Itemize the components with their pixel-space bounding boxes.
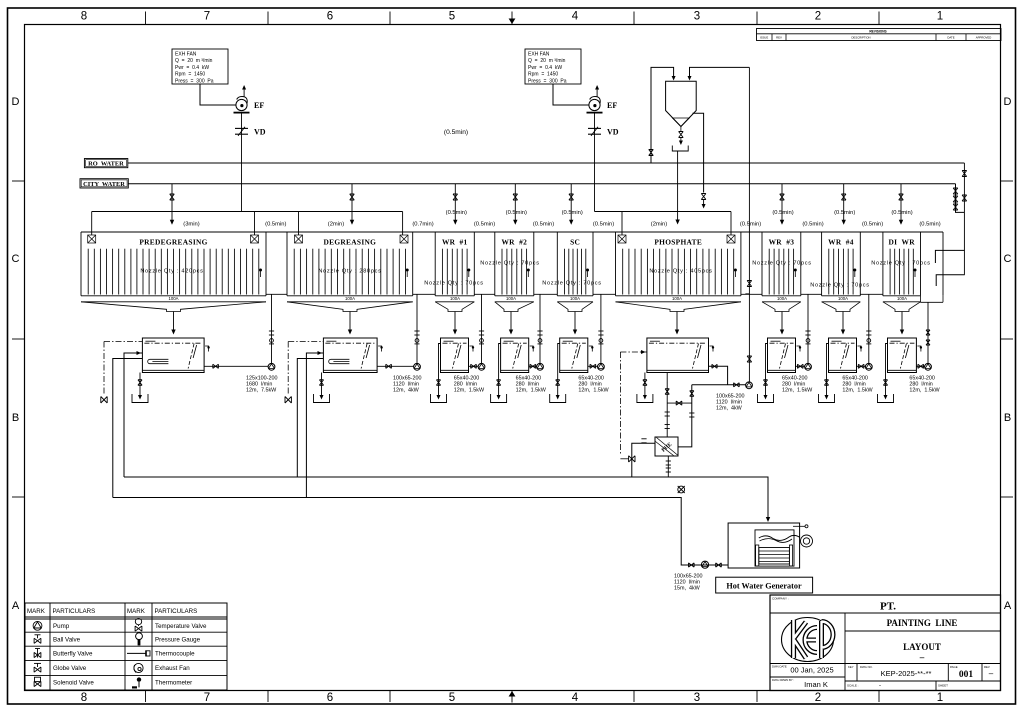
CITY WATER label box — [80, 179, 128, 188]
city water drop wire x=352.0 — [351, 184, 353, 220]
svg-text:REV: REV — [776, 36, 782, 40]
svg-text:(0.5min): (0.5min) — [562, 210, 583, 216]
thermometer symbol in PREDEGREASING — [259, 269, 262, 272]
pump DEGREASING — [414, 363, 421, 370]
tank divider wall x=287 — [286, 232, 288, 296]
svg-text:Q = 20 m ³/min: Q = 20 m ³/min — [528, 58, 566, 64]
hopper WR #4 — [822, 302, 861, 312]
hot water generator label box — [716, 577, 813, 593]
svg-text:Ball Valve: Ball Valve — [53, 636, 81, 643]
PHE left valve — [629, 456, 635, 462]
hot water generator supply valves — [689, 563, 695, 567]
reservoir WR3 dipstick — [780, 344, 786, 369]
svg-text:EXH FAN: EXH FAN — [528, 51, 550, 57]
tank PHOSPHATE bottom wires — [616, 295, 741, 297]
svg-text:EXH FAN: EXH FAN — [175, 51, 197, 57]
hopper DI WR — [883, 302, 921, 312]
city water drop wire x=172.0 — [171, 184, 173, 220]
compartment bottom wire 533.8-557.3 — [534, 293, 558, 295]
svg-text:Iman K: Iman K — [804, 680, 828, 689]
svg-text:12m, 1.5kW: 12m, 1.5kW — [842, 387, 873, 393]
EXH fan 2 discharge arrow — [596, 87, 598, 97]
tank strip top wire — [81, 231, 943, 233]
compartment bottom wire 474.3-494.8 — [474, 293, 495, 295]
reservoir WR4 — [829, 338, 857, 373]
tank divider wall x=943 — [942, 232, 944, 296]
drain funnel WR3 — [758, 394, 774, 403]
reservoir PHOSPHATE dipstick — [693, 344, 699, 369]
tank divider wall x=435.2 — [434, 232, 436, 296]
compartment bottom wire 740.9-762 — [741, 293, 762, 295]
RO water right drop wire — [963, 163, 965, 275]
tank divider wall x=494.8 — [494, 232, 496, 296]
svg-text:SHEET: SHEET — [938, 684, 948, 688]
svg-text:8: 8 — [81, 11, 87, 23]
svg-text:PAINTING LINE: PAINTING LINE — [887, 618, 958, 628]
svg-text:Press = 300 Pa: Press = 300 Pa — [175, 78, 214, 84]
svg-text:DWG NO.: DWG NO. — [860, 665, 873, 669]
city water drop wire x=515.3 — [514, 184, 516, 220]
drain funnel PHOSPHATE — [637, 394, 653, 403]
svg-text:1: 1 — [937, 11, 943, 23]
svg-text:5: 5 — [449, 692, 455, 704]
drain wire SC — [558, 344, 560, 398]
exhaust manifold right — [595, 211, 732, 213]
feed pipe DEGREASING to reservoir — [349, 312, 351, 331]
svg-text:(0.5min): (0.5min) — [802, 222, 823, 228]
svg-text:KEP-2025-**-**: KEP-2025-**-** — [881, 669, 932, 678]
svg-text:A: A — [12, 600, 20, 612]
thermometer symbol in DI WR — [914, 269, 917, 272]
reservoir PREDEGREASING level switch — [205, 346, 209, 352]
tank divider wall x=81 — [80, 232, 82, 296]
feed pipe WR #3 to reservoir — [781, 312, 783, 331]
reservoir WR4 dipstick — [841, 344, 847, 369]
border zone ticks bottom — [145, 691, 147, 703]
tank divider wall x=412.7 — [412, 232, 414, 296]
thermometer symbol in WR #2 — [527, 269, 530, 272]
EXH fan 2 spec box — [525, 49, 581, 84]
svg-text:Nozzle Qty : 70pcs: Nozzle Qty : 70pcs — [810, 283, 870, 289]
title block vertical divider — [844, 613, 846, 691]
EXH fan 1 discharge arrow — [243, 87, 245, 97]
svg-text:WR #2: WR #2 — [501, 237, 527, 246]
svg-text:(0.5min): (0.5min) — [740, 222, 761, 228]
tank WR #4 bottom wires — [822, 295, 861, 297]
exhaust X-box x=91.7 — [88, 235, 96, 243]
reservoir PREDEGREASING level line — [144, 342, 202, 344]
svg-text:3: 3 — [694, 692, 700, 704]
feed pipe PHOSPHATE to reservoir — [676, 312, 678, 331]
pump WR4 — [865, 363, 872, 370]
hot water generator blower — [801, 535, 813, 547]
DI WR fresh water stub lower — [936, 275, 965, 286]
svg-text:(0.5min): (0.5min) — [593, 222, 614, 228]
tank divider wall x=533.8 — [533, 232, 535, 296]
drain wire WR4 — [827, 344, 829, 398]
svg-text:(0.5min): (0.5min) — [444, 129, 468, 136]
svg-text:PHOSPHATE: PHOSPHATE — [654, 237, 702, 246]
pump suction wire DEGREASING — [377, 365, 414, 367]
svg-text:EF: EF — [254, 101, 264, 110]
PHE bottom wire — [667, 456, 669, 477]
cyclone inlet duct right — [690, 67, 750, 77]
reservoir WR4 level switch — [858, 346, 862, 352]
svg-text:Nozzle Qty : 405pcs: Nozzle Qty : 405pcs — [649, 269, 712, 275]
city water drop wire x=571.2 — [570, 184, 572, 220]
hot water supply long wire — [124, 477, 768, 517]
exhaust X-box x=622 — [618, 235, 626, 243]
svg-text:12m, 1.5kW: 12m, 1.5kW — [578, 387, 609, 393]
compartment bottom wire 266-287 — [266, 293, 287, 295]
thermometer symbol in WR #1 — [467, 269, 470, 272]
pump riser wire x=481.5 — [481, 294, 483, 364]
PHE left wire — [632, 443, 655, 477]
svg-text:12m, 7.5kW: 12m, 7.5kW — [246, 387, 277, 393]
exhaust X-box x=254.5 — [251, 235, 259, 243]
svg-text:Nozzle Qty : 420pcs: Nozzle Qty : 420pcs — [140, 269, 203, 275]
svg-text:(0.7min): (0.7min) — [412, 222, 433, 228]
hopper WR #1 — [435, 302, 474, 312]
tank PREDEGREASING bottom wires — [81, 295, 266, 297]
svg-text:5: 5 — [449, 11, 455, 23]
tank divider wall x=557.3 — [556, 232, 558, 296]
svg-text:(3min): (3min) — [183, 222, 199, 228]
svg-text:SC: SC — [570, 237, 580, 246]
svg-text:WR #3: WR #3 — [769, 237, 795, 246]
reservoir PHOSPHATE level line — [649, 342, 707, 344]
svg-text:RO WATER: RO WATER — [88, 161, 124, 168]
svg-text:B: B — [1004, 412, 1011, 424]
tank SC bottom wires — [557, 295, 593, 297]
legend symbol solenoid valve — [34, 681, 41, 686]
legend symbol globe valve — [34, 667, 41, 672]
svg-text:12m, 1.5kW: 12m, 1.5kW — [909, 387, 940, 393]
EXH fan 1 damper VD — [241, 113, 243, 212]
reservoir DIWR dipstick — [900, 344, 906, 369]
svg-text:4: 4 — [572, 11, 579, 23]
DI WR right compartment bottom — [921, 301, 944, 303]
border zone ticks left — [12, 180, 25, 182]
reservoir WR3 — [768, 338, 796, 373]
exhaust X-box x=731 — [727, 235, 735, 243]
svg-text:12m, 1.5kW: 12m, 1.5kW — [782, 387, 813, 393]
title block project row — [845, 630, 1001, 632]
thermometer symbol in PHOSPHATE — [734, 269, 737, 272]
legend symbol thermometer — [137, 677, 141, 681]
svg-text:Butterfly Valve: Butterfly Valve — [53, 650, 93, 657]
svg-text:CITY WATER: CITY WATER — [83, 181, 125, 188]
svg-text:100A: 100A — [506, 296, 516, 301]
reservoir PREDEGREASING heating coil — [148, 359, 169, 363]
reservoir WR4 level line — [831, 342, 855, 344]
phosphate pump suction wire — [692, 384, 746, 386]
svg-text:7: 7 — [204, 692, 210, 704]
city water drop wire x=782.0 — [781, 184, 783, 220]
reservoir WR3 level line — [770, 342, 794, 344]
EXH fan 1 leader wire — [200, 84, 236, 105]
svg-text:15m, 4kW: 15m, 4kW — [674, 586, 701, 592]
legend symbol thermocouple — [127, 652, 146, 654]
drain funnel WR1 — [431, 394, 447, 403]
svg-text:Exhaust Fan: Exhaust Fan — [155, 665, 190, 672]
feed pipe WR #1 to reservoir — [454, 312, 456, 331]
svg-text:PREDEGREASING: PREDEGREASING — [139, 237, 207, 246]
feed pipe SC to reservoir — [574, 312, 576, 331]
legend symbol butterfly valve — [34, 652, 41, 657]
feed pipe WR #2 to reservoir — [510, 312, 512, 331]
reservoir DEGREASING level switch — [378, 346, 382, 352]
svg-text:PARTICULARS: PARTICULARS — [155, 608, 198, 615]
reservoir PREDEGREASING dipstick — [188, 344, 194, 369]
reservoir DEGREASING — [323, 338, 377, 373]
pump riser wire x=868.8 — [868, 294, 870, 364]
svg-text:B: B — [12, 412, 19, 424]
svg-text:001: 001 — [959, 670, 974, 680]
feed pipe PREDEGREASING to reservoir — [173, 312, 175, 331]
svg-text:7: 7 — [204, 11, 210, 23]
reservoir WR2 — [501, 338, 529, 373]
svg-text:APPROVED: APPROVED — [976, 36, 992, 40]
hopper WR #3 — [762, 302, 801, 312]
reservoir DIWR level line — [890, 342, 915, 344]
DI WR fresh water stub upper — [935, 250, 964, 263]
drain wire WR3 — [766, 344, 768, 398]
pump DIWR — [925, 363, 932, 370]
svg-text:COMPANY :: COMPANY : — [772, 597, 789, 601]
PHE top wire to phosphate reservoir — [666, 373, 668, 438]
cyclone drain container — [680, 138, 682, 143]
drain funnel WR4 — [819, 394, 835, 403]
legend table frame — [25, 603, 227, 690]
reservoir WR1 level switch — [470, 346, 474, 352]
svg-text:(0.5min): (0.5min) — [533, 222, 554, 228]
svg-text:(2min): (2min) — [328, 222, 344, 228]
pump WR2 — [537, 363, 544, 370]
compartment bottom wire 860.3-882.9 — [860, 293, 883, 295]
svg-text:Nozzle Qty : 70pcs: Nozzle Qty : 70pcs — [542, 281, 602, 287]
svg-text:D: D — [12, 96, 20, 108]
KEP logo — [782, 618, 834, 662]
svg-text:Q = 20 m ³/min: Q = 20 m ³/min — [175, 58, 213, 64]
reservoir WR2 level line — [503, 342, 527, 344]
svg-text:(0.5min): (0.5min) — [474, 222, 495, 228]
svg-text:(0.5min): (0.5min) — [265, 222, 286, 228]
thermometer symbol in SC — [586, 269, 589, 272]
cyclone body — [666, 81, 697, 126]
svg-text:DATE: DATE — [947, 36, 954, 40]
svg-text:00 Jan, 2025: 00 Jan, 2025 — [790, 666, 833, 675]
svg-text:(0.5min): (0.5min) — [446, 210, 467, 216]
svg-text:Pwr = 0.4 kW: Pwr = 0.4 kW — [528, 65, 562, 71]
svg-text:KEY: KEY — [848, 665, 854, 669]
reservoir SC level line — [562, 342, 586, 344]
tank divider wall x=615.5 — [615, 232, 617, 296]
title block date row — [770, 663, 1001, 665]
svg-text:ISSUE: ISSUE — [760, 36, 769, 40]
return line junction valve — [678, 486, 685, 493]
border centre mark bottom — [511, 691, 513, 703]
svg-text:MARK: MARK — [27, 608, 46, 615]
tank divider wall x=266 — [265, 232, 267, 296]
svg-text:Pump: Pump — [53, 623, 70, 630]
pump riser wire x=808 — [807, 294, 809, 364]
drain wire WR1 — [439, 344, 441, 398]
svg-text:6: 6 — [327, 692, 333, 704]
svg-text:8: 8 — [81, 692, 87, 704]
svg-text:DWG DRWN BY :: DWG DRWN BY : — [772, 678, 794, 682]
reservoir WR2 level switch — [530, 346, 534, 352]
tank divider wall x=474.3 — [473, 232, 475, 296]
svg-text:SCALE :: SCALE : — [847, 684, 859, 688]
city water drop wire x=901.0 — [900, 184, 902, 220]
svg-text:C: C — [1004, 253, 1012, 265]
tank WR #3 bottom wires — [762, 295, 801, 297]
svg-text:EF: EF — [607, 101, 617, 110]
svg-text:100A: 100A — [570, 296, 580, 301]
hopper SC — [557, 302, 593, 312]
tank divider wall x=882.9 — [882, 232, 884, 296]
revision table — [757, 29, 1002, 41]
EXH fan 1 spec box — [172, 49, 228, 84]
svg-text:Rpm = 1450: Rpm = 1450 — [175, 72, 205, 78]
svg-text:LAYOUT: LAYOUT — [903, 642, 941, 652]
cyclone side outlet wire — [693, 113, 704, 192]
svg-text:Pwr = 0.4 kW: Pwr = 0.4 kW — [175, 65, 209, 71]
svg-text:REVISIONS: REVISIONS — [869, 30, 886, 34]
drain funnel DEGREASING — [314, 394, 330, 403]
PHE right wire — [678, 385, 692, 447]
compartment bottom wire 800.8-821.6 — [801, 293, 822, 295]
compartment bottom wire 412.7-435.2 — [413, 293, 436, 295]
svg-text:(0.5min): (0.5min) — [891, 210, 912, 216]
svg-text:100A: 100A — [838, 296, 848, 301]
legend symbol pump — [33, 621, 42, 630]
legend symbol ball valve — [34, 638, 41, 643]
EXH fan 1 fan symbol EF — [236, 99, 247, 110]
cascade wire res2 to res1 upper — [124, 353, 142, 477]
svg-text:4: 4 — [572, 692, 579, 704]
reservoir WR1 level line — [443, 342, 467, 344]
condensate valve x=104 — [101, 397, 107, 404]
pump suction wire WR3 — [796, 365, 806, 367]
svg-text:DEGREASING: DEGREASING — [323, 237, 376, 246]
pump suction wire DIWR — [916, 365, 925, 367]
svg-text:Hot Water Generator: Hot Water Generator — [726, 581, 802, 590]
drain funnel SC — [550, 394, 566, 403]
svg-text:Nozzle Qty : 70pcs: Nozzle Qty : 70pcs — [871, 261, 931, 267]
title block scale row — [845, 680, 1001, 682]
reservoir WR1 dipstick — [453, 344, 459, 369]
reservoir SC dipstick — [572, 344, 578, 369]
reservoir SC — [560, 338, 588, 373]
svg-text:Press = 300 Pa: Press = 300 Pa — [528, 78, 567, 84]
feed pipe WR #4 to reservoir — [842, 312, 844, 331]
svg-text:100A: 100A — [168, 296, 178, 301]
pump WR1 — [478, 363, 485, 370]
phosphate dash-dot feed — [620, 351, 647, 353]
pump riser wire x=600.9 — [600, 294, 602, 364]
drain funnel PREDEGREASING — [132, 394, 148, 403]
svg-text:100A: 100A — [450, 296, 460, 301]
cascade wire res2 to res1 lower — [113, 359, 143, 498]
svg-text:–: – — [919, 652, 925, 662]
pump PREDEGREASING — [268, 363, 275, 370]
pump riser wire x=540 — [539, 294, 541, 364]
drain wire PHOSPHATE — [644, 373, 646, 398]
phosphate reservoir outlet wire — [709, 366, 728, 385]
pump suction wire SC — [588, 365, 598, 367]
svg-text:2: 2 — [815, 11, 821, 23]
city water drop wire x=843.7 — [843, 184, 845, 220]
svg-text:-: - — [879, 683, 881, 689]
hot water return long wire — [113, 498, 728, 566]
svg-text:(0.5min): (0.5min) — [506, 210, 527, 216]
pump SC — [598, 363, 605, 370]
tank WR #2 bottom wires — [495, 295, 534, 297]
reservoir DIWR level switch — [917, 346, 921, 352]
hopper PHOSPHATE — [616, 302, 741, 312]
border zone ticks right — [1001, 180, 1014, 182]
hopper PREDEGREASING — [81, 302, 266, 312]
svg-text:Solenoid Valve: Solenoid Valve — [53, 679, 94, 686]
feed pipe DI WR to reservoir — [901, 312, 903, 331]
reservoir PREDEGREASING — [142, 338, 204, 373]
svg-text:DESCRIPTION: DESCRIPTION — [851, 36, 870, 40]
reservoir WR1 — [441, 338, 469, 373]
svg-text:VD: VD — [607, 127, 619, 136]
pump suction wire WR4 — [857, 365, 866, 367]
svg-text:WR #4: WR #4 — [828, 237, 854, 246]
reservoir SC level switch — [589, 346, 593, 352]
tank divider wall x=762 — [761, 232, 763, 296]
hot water generator body — [728, 523, 800, 568]
pump WR3 — [805, 363, 812, 370]
legend symbol pressure gauge — [136, 633, 143, 640]
legend symbol exhaust fan — [134, 663, 143, 672]
tank divider wall x=821.6 — [821, 232, 823, 296]
title block company row — [770, 612, 1001, 614]
svg-text:(2min): (2min) — [651, 222, 667, 228]
reservoir DEGREASING heating coil — [329, 359, 350, 363]
pump riser wire x=271.5 — [271, 294, 273, 364]
tank divider wall x=740.9 — [740, 232, 742, 296]
exhaust X-box x=404 — [400, 235, 408, 243]
svg-text:(0.5min): (0.5min) — [772, 210, 793, 216]
tank DI WR bottom wires — [883, 295, 921, 297]
svg-text:6: 6 — [327, 11, 333, 23]
svg-text:WR #1: WR #1 — [442, 237, 468, 246]
hopper DEGREASING — [287, 302, 413, 312]
hot water generator pump — [701, 561, 708, 568]
condensate dash-dot wire near x=104 — [104, 341, 142, 343]
svg-text:Nozzle Qty : 70pcs: Nozzle Qty : 70pcs — [424, 281, 484, 287]
tank divider wall x=593 — [592, 232, 594, 296]
compartment bottom wire 593-615.5 — [593, 293, 616, 295]
legend symbol temperature valve — [135, 626, 142, 631]
svg-text:Nozzle Qty : 280pcs: Nozzle Qty : 280pcs — [318, 269, 381, 275]
svg-text:Nozzle Qty : 70pcs: Nozzle Qty : 70pcs — [480, 261, 540, 267]
svg-text:C: C — [12, 253, 20, 265]
tank divider wall x=800.8 — [800, 232, 802, 296]
tank divider wall x=920.5 — [920, 232, 922, 296]
DI WR drain wire to pump — [927, 302, 929, 364]
pump riser wire x=417 — [416, 294, 418, 364]
svg-text:VD: VD — [254, 127, 266, 136]
svg-text:100A: 100A — [345, 296, 355, 301]
svg-text:Pressure Gauge: Pressure Gauge — [155, 636, 201, 643]
svg-text:PT.: PT. — [880, 601, 896, 613]
